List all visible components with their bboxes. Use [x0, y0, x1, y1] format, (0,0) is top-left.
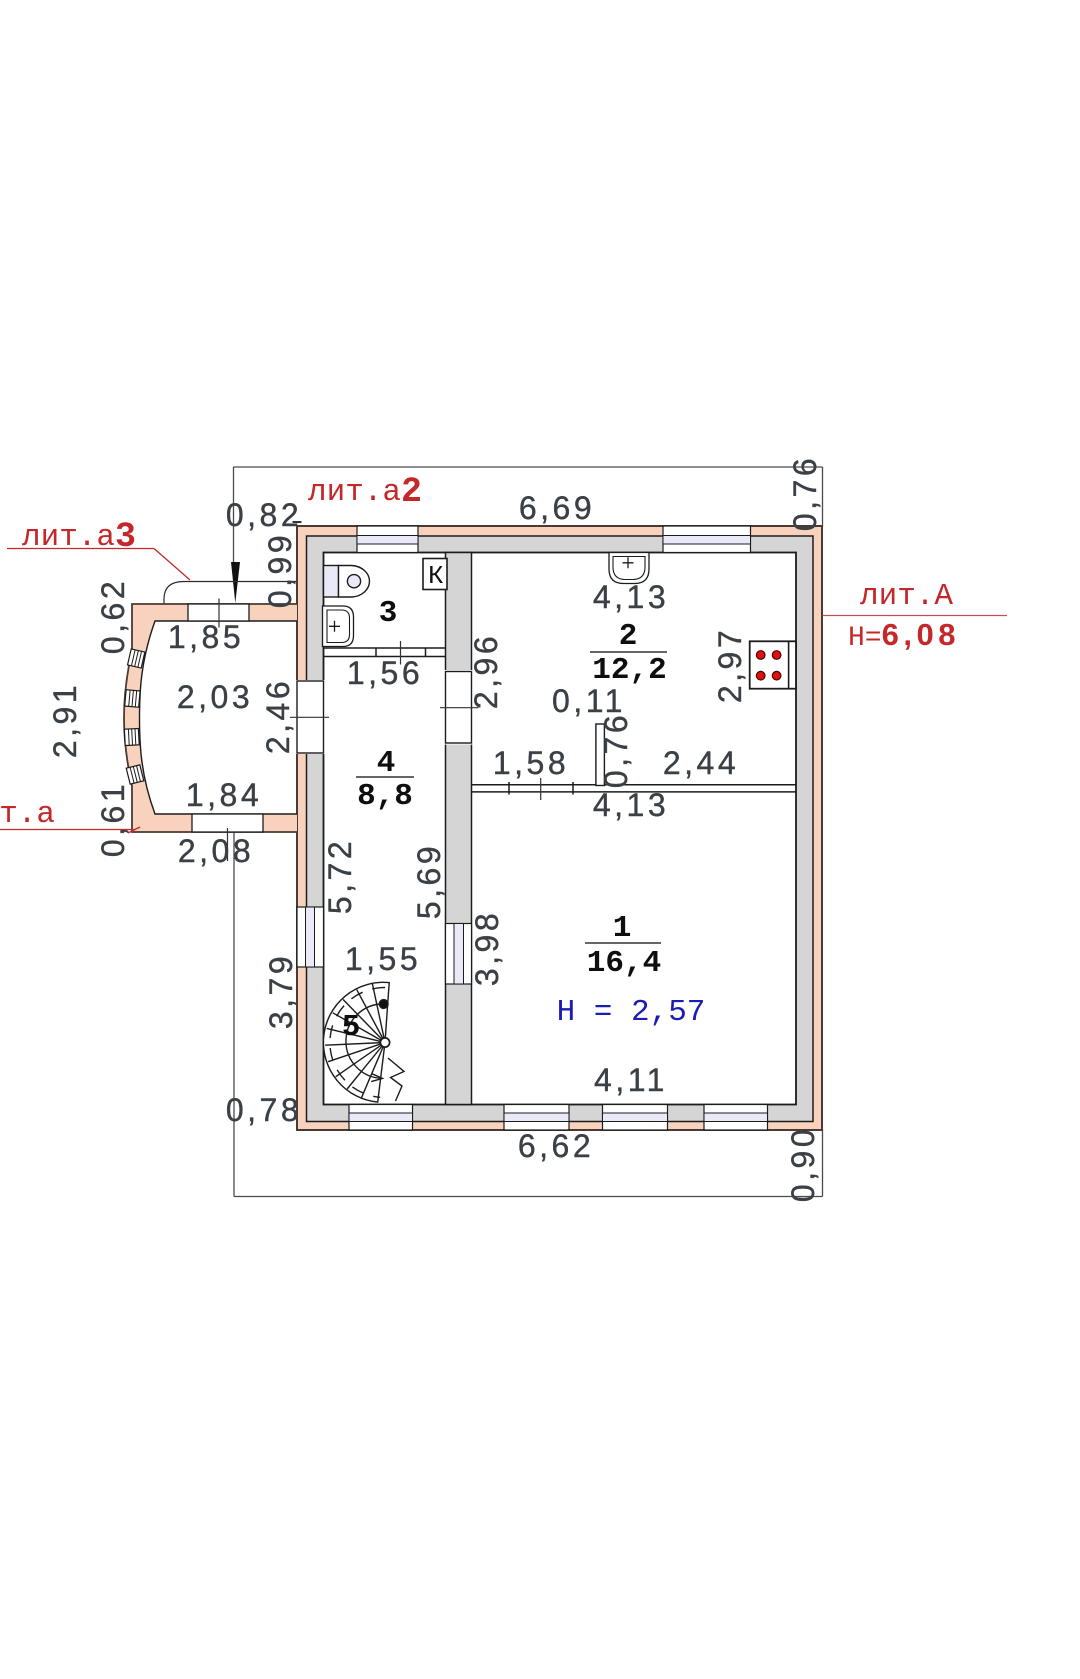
svg-text:1: 1: [613, 911, 632, 946]
svg-text:3,79: 3,79: [263, 953, 299, 1029]
door opening west wall to bay: [295, 680, 326, 754]
window bottom-2: [504, 1105, 569, 1131]
site boundary left upper line: [233, 467, 235, 564]
main building inner wall band (gray): [307, 536, 814, 1122]
svg-text:лит.а: лит.а: [0, 797, 55, 832]
bay top band window 1,85: [188, 604, 249, 621]
interior wall window (room5 to room1): [446, 924, 472, 985]
svg-text:лит.а2: лит.а2: [308, 472, 422, 512]
svg-text:лит.А: лит.А: [860, 579, 953, 614]
svg-text:2,96: 2,96: [468, 633, 504, 709]
window west wall: [297, 907, 324, 967]
svg-text:0,82: 0,82: [226, 497, 302, 533]
svg-text:0,76: 0,76: [598, 712, 634, 788]
tick bay bottom window: [227, 828, 229, 861]
bay outer contour: [124, 604, 297, 832]
svg-text:2,44: 2,44: [663, 745, 739, 781]
entrance arrow: [231, 562, 240, 603]
window bottom-4: [704, 1105, 768, 1131]
svg-text:8,8: 8,8: [357, 779, 413, 814]
window bottom-1: [349, 1105, 413, 1131]
svg-text:1,85: 1,85: [168, 619, 244, 655]
sink room 3: [323, 606, 354, 647]
svg-text:16,4: 16,4: [587, 946, 661, 981]
tick partition 3/4: [400, 641, 402, 665]
svg-text:3: 3: [379, 596, 398, 631]
bay window segment 3 (hatched): [124, 728, 139, 745]
svg-text:2,08: 2,08: [178, 833, 254, 869]
svg-text:2,03: 2,03: [177, 679, 253, 715]
svg-text:2,91: 2,91: [47, 682, 83, 758]
main building lit.A outer wall (pink): [297, 526, 822, 1130]
staircase hub post: [380, 1038, 389, 1047]
svg-text:0,76: 0,76: [787, 455, 823, 531]
boiler K box: [423, 559, 447, 590]
svg-text:лит.а3: лит.а3: [22, 517, 136, 557]
svg-text:4,11: 4,11: [594, 1062, 668, 1098]
svg-text:H = 2,57: H = 2,57: [557, 995, 706, 1030]
svg-text:К: К: [428, 561, 444, 591]
toilet bowl: [339, 566, 370, 598]
tick building top-left corner: [293, 521, 302, 523]
svg-text:5: 5: [342, 1010, 361, 1045]
staircase break zigzag: [388, 1058, 404, 1101]
staircase room5 fan: [323, 982, 389, 1102]
svg-text:2: 2: [619, 619, 638, 654]
site boundary right line upper: [822, 467, 824, 527]
tick partition 2/1 door: [540, 778, 542, 800]
svg-text:3,98: 3,98: [469, 910, 505, 986]
svg-text:12,2: 12,2: [592, 653, 666, 688]
tick interior door: [440, 707, 479, 709]
window bottom-3: [603, 1105, 668, 1131]
svg-text:6,62: 6,62: [518, 1128, 594, 1164]
svg-text:4,13: 4,13: [593, 787, 669, 823]
bay window segment 4 (hatched): [126, 765, 144, 784]
tick bay top window: [218, 599, 220, 628]
partition rooms 2/1: [472, 782, 797, 795]
svg-text:1,55: 1,55: [345, 941, 421, 977]
svg-text:1,56: 1,56: [347, 655, 423, 691]
window top-2: [663, 526, 751, 553]
door opening interior wall (room4 to room2): [444, 670, 474, 745]
svg-text:0,90: 0,90: [785, 1126, 821, 1202]
svg-text:6,69: 6,69: [519, 490, 595, 526]
toilet tank: [324, 566, 339, 598]
staircase walk line with direction dot and arrow: [346, 1000, 388, 1082]
interior wall rooms 3/4 vs 2/1: [446, 553, 472, 1105]
bay bottom band window 1,84: [192, 814, 263, 832]
partition rooms 3/4: [324, 648, 446, 657]
svg-text:4,13: 4,13: [593, 579, 669, 615]
site boundary bottom line: [234, 1196, 823, 1198]
stove room 2: [750, 641, 796, 688]
sink room 2: [609, 553, 649, 584]
svg-text:4: 4: [377, 746, 396, 781]
svg-text:1,84: 1,84: [186, 777, 262, 813]
site boundary left lower line: [233, 833, 235, 1197]
porch a2 outline (rounded corner): [164, 582, 296, 621]
bay inner contour: [140, 621, 298, 814]
site boundary right line lower: [822, 1129, 824, 1197]
svg-text:0,61: 0,61: [95, 781, 131, 857]
bay window segment 1 (hatched): [128, 649, 145, 668]
bay window segment 2 (hatched): [125, 690, 140, 708]
svg-text:2,46: 2,46: [260, 678, 296, 754]
bay lit.a3 wall fill: [124, 604, 297, 832]
toilet flush circle: [347, 575, 360, 588]
site boundary top line: [234, 466, 823, 468]
svg-text:2,97: 2,97: [712, 627, 748, 703]
svg-text:H=6,08: H=6,08: [848, 617, 960, 654]
svg-text:0,62: 0,62: [95, 578, 131, 654]
tick west door: [290, 716, 329, 718]
svg-text:5,72: 5,72: [322, 838, 358, 914]
svg-text:1,58: 1,58: [493, 745, 569, 781]
wall stub 0,11: [596, 724, 605, 786]
window top-1: [357, 526, 418, 553]
main building interior area: [324, 553, 797, 1105]
svg-text:0,78: 0,78: [226, 1092, 302, 1128]
svg-text:5,69: 5,69: [411, 843, 447, 919]
svg-text:0,99: 0,99: [262, 532, 298, 608]
